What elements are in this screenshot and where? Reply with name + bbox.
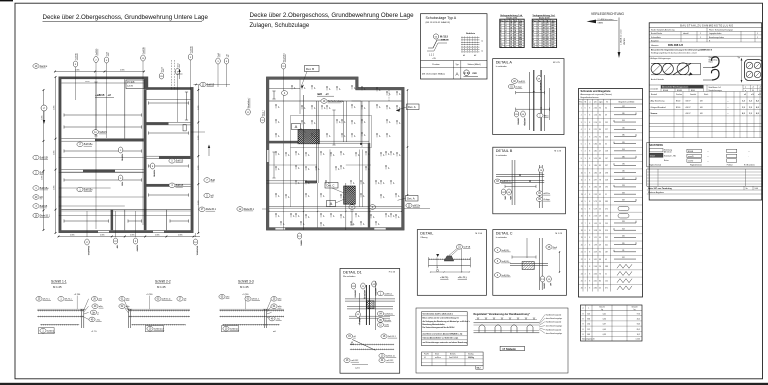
svg-text:o8: o8 (388, 93, 390, 95)
svg-text:Bemerk.: Bemerk. (450, 354, 456, 356)
svg-text:67: 67 (514, 46, 516, 48)
svg-text:4ø8: 4ø8 (317, 92, 322, 96)
svg-text:o8: o8 (387, 153, 389, 155)
svg-text:6: 6 (505, 46, 506, 48)
left plan interior wall vertical bottom-left (111, 210, 114, 230)
left plan interior bubbles (92, 130, 107, 135)
svg-text:o8: o8 (338, 121, 340, 123)
svg-text:5o8/15e: 5o8/15e (84, 188, 93, 191)
svg-text:1.56: 1.56 (594, 115, 597, 117)
svg-text:10: 10 (581, 172, 583, 174)
svg-text:2.885: 2.885 (42, 176, 44, 181)
svg-text:8: 8 (589, 230, 590, 232)
svg-text:1.81: 1.81 (594, 151, 597, 153)
svg-text:Lageplan-Index: Lageplan-Index (709, 33, 721, 35)
svg-text:2: 2 (585, 136, 586, 138)
svg-text:2.885: 2.885 (198, 166, 200, 171)
section Schnitt 3-3 right bubbles (271, 297, 282, 302)
svg-text:167: 167 (605, 158, 608, 160)
svg-text:Öffnung: Öffnung (420, 236, 427, 239)
svg-text:o8: o8 (277, 195, 279, 197)
svg-text:ø8: ø8 (744, 94, 746, 96)
svg-text:0,39: 0,39 (603, 334, 606, 336)
left plan top dimension line (55, 71, 144, 73)
detail C horizontal bars (510, 263, 548, 265)
svg-text:371: 371 (605, 288, 608, 290)
svg-text:o8: o8 (382, 154, 384, 156)
svg-text:227: 227 (605, 129, 608, 131)
svg-text:80: 80 (599, 280, 601, 282)
svg-text:9: 9 (585, 122, 586, 124)
left plan interior wall h5 right (147, 183, 191, 185)
svg-text:5o8/15: 5o8/15 (96, 48, 98, 55)
svg-text:5ø8(15.): 5ø8(15.) (501, 250, 509, 252)
svg-text:Dwfe15.1: Dwfe15.1 (195, 246, 197, 256)
detail D1 left rotated bubble (356, 311, 361, 326)
svg-text:o8: o8 (352, 182, 354, 184)
svg-text:2.90: 2.90 (594, 136, 597, 138)
svg-text:o8: o8 (357, 154, 359, 156)
svg-text:5ø8(15)e: 5ø8(15)e (501, 275, 510, 277)
left plan left margin leader lines (59, 157, 144, 159)
detail B bubbles (494, 179, 511, 184)
svg-text:o8: o8 (307, 154, 309, 156)
title block Baustoffe row 2 (650, 153, 664, 157)
svg-text:+ø8/15: +ø8/15 (95, 93, 105, 97)
left plan outer wall right (191, 87, 194, 233)
middle plan outer outline (267, 77, 405, 230)
svg-text:5.19: 5.19 (594, 208, 597, 210)
svg-text:8: 8 (589, 208, 590, 210)
svg-text:1.80: 1.80 (594, 172, 597, 174)
svg-text:152: 152 (605, 280, 608, 282)
svg-text:497: 497 (622, 178, 625, 180)
svg-text:Schneide und Biegeliste: Schneide und Biegeliste (581, 89, 612, 93)
svg-text:8: 8 (589, 136, 590, 138)
svg-text:o8: o8 (342, 216, 344, 218)
svg-text:3: 3 (585, 158, 586, 160)
left plan top annotation bubbles (73, 52, 78, 67)
svg-text:ø8-72.): ø8-72.) (43, 299, 50, 301)
section Schnitt 2-2 leader fan (124, 299, 129, 310)
left plan window mark (183, 125, 186, 131)
note box mini table (422, 352, 484, 366)
svg-text:Dwte15.1: Dwte15.1 (244, 208, 255, 211)
svg-text:7: 7 (585, 223, 586, 225)
left plan right dimension line (197, 85, 199, 233)
svg-text:21: 21 (599, 122, 601, 124)
svg-text:25: 25 (599, 208, 601, 210)
svg-text:—: — (707, 156, 709, 158)
svg-text:5: 5 (585, 208, 586, 210)
svg-text:395: 395 (622, 243, 625, 245)
svg-text:8: 8 (589, 187, 590, 189)
svg-text:ø8/15.1: ø8/15.1 (353, 290, 355, 298)
svg-text:Schubzulage: Schubzulage (328, 99, 344, 103)
svg-text:Schneidliste: Schneidliste (651, 36, 661, 39)
svg-text:3ø=07-03-01: 3ø=07-03-01 (449, 357, 458, 359)
svg-text:667: 667 (519, 46, 522, 48)
svg-text:o8: o8 (323, 107, 325, 109)
svg-text:Schnitt 3-3: Schnitt 3-3 (238, 280, 254, 284)
svg-text:o8: o8 (342, 167, 344, 169)
svg-text:130: 130 (622, 127, 625, 129)
svg-text:o8: o8 (322, 224, 324, 226)
svg-text:o8: o8 (398, 154, 400, 156)
svg-text:o8: o8 (362, 195, 364, 197)
left plan right margin bubbles (204, 178, 216, 183)
svg-text:Allg. Bewehrung: Allg. Bewehrung (651, 100, 665, 103)
svg-text:ø=20cm: ø=20cm (435, 357, 441, 359)
svg-text:4: 4 (585, 273, 586, 275)
left plan wall step (144, 77, 148, 90)
svg-text:o8: o8 (367, 168, 369, 170)
svg-text:ø8/15e: ø8/15e (543, 193, 550, 195)
svg-text:6: 6 (585, 107, 586, 109)
svg-text:Dwte15.1: Dwte15.1 (87, 246, 90, 256)
svg-text:01: 01 (424, 357, 426, 359)
svg-text:o8: o8 (292, 215, 294, 217)
svg-text:2.885: 2.885 (198, 201, 200, 206)
middle plan Det. A label right lower (406, 196, 419, 202)
svg-text:80: 80 (599, 129, 601, 131)
svg-text:5ø8(15.): 5ø8(15.) (501, 261, 509, 263)
svg-text:o8: o8 (293, 87, 295, 89)
Schubzulage bent bar sketch (428, 40, 445, 48)
svg-text:UNTEN: UNTEN (624, 38, 626, 45)
svg-text:o8: o8 (322, 195, 324, 197)
svg-text:18: 18 (581, 230, 583, 232)
svg-text:(BK 13x25x12)(25 StBA(-1): (BK 13x25x12)(25 StBA(-1) (422, 73, 445, 76)
left plan bottom leader lines (86, 211, 88, 237)
middle plan interior wall v mid (316, 101, 318, 183)
svg-text:Bauhöhe f: Bauhöhe f (248, 97, 250, 107)
svg-text:4.61: 4.61 (594, 280, 597, 282)
svg-text:0,37: 0,37 (603, 324, 606, 326)
middle plan left margin bubble (237, 207, 255, 212)
middle plan interior v line left-center (299, 80, 301, 115)
svg-text:272: 272 (605, 208, 608, 210)
svg-text:BAUSTOFFE: BAUSTOFFE (649, 144, 663, 147)
svg-text:383: 383 (605, 201, 608, 203)
svg-text:1: 1 (700, 37, 701, 39)
svg-text:Pläne: Schal-/bewehrungspl.: Pläne: Schal-/bewehrungspl. (709, 28, 734, 31)
svg-text:97,6: 97,6 (637, 313, 640, 315)
svg-text:Dwt: Dwt (176, 63, 179, 67)
detail Oeffnung dark knot (444, 256, 454, 261)
svg-text:B500B: B500B (677, 90, 682, 92)
svg-text:8: 8 (589, 280, 590, 282)
svg-text:3.31: 3.31 (594, 259, 597, 261)
detail Oeffnung leaders (449, 249, 457, 256)
detail D1 lower slab (350, 344, 394, 346)
svg-text:o8: o8 (328, 135, 330, 137)
left plan left dimension line outer (43, 90, 45, 230)
left plan outer wall bottom (59, 230, 194, 233)
svg-text:Beton: Beton (664, 159, 669, 162)
note box 17 Staebe label (500, 346, 524, 350)
svg-text:—: — (748, 151, 750, 153)
svg-text:+ø8.152: +ø8.152 (386, 360, 394, 362)
svg-text:5ø8(15.1): 5ø8(15.1) (501, 181, 510, 183)
left plan left margin bubbles (33, 64, 48, 69)
middle plan right dim line (407, 90, 409, 195)
svg-text:8: 8 (589, 201, 590, 203)
svg-text:Durchm.: Durchm. (676, 93, 683, 96)
svg-text:111: 111 (622, 250, 625, 252)
svg-text:5o8/15e: 5o8/15e (40, 187, 49, 190)
svg-text:4/8: 4/8 (700, 107, 703, 109)
svg-text:Sn Anlage angefertig v.Sn durc: Sn Anlage angefertig v.Sn durchaus allen… (651, 52, 697, 55)
svg-text:t 56.97: t 56.97 (685, 100, 691, 103)
svg-text:Det. C: Det. C (327, 184, 335, 188)
svg-text:o8: o8 (297, 167, 299, 169)
svg-text:Det. A: Det. A (407, 197, 415, 201)
svg-text:5: 5 (581, 136, 582, 138)
svg-text:5o8: 5o8 (211, 179, 216, 182)
svg-text:3.98: 3.98 (594, 230, 597, 232)
svg-text:+9.7%: +9.7% (91, 331, 97, 333)
left plan bottom wall door gaps (98, 230, 109, 232)
svg-text:5o8/15: 5o8/15 (143, 46, 145, 53)
title block Baustoffe row 3 (687, 159, 702, 162)
svg-text:8: 8 (589, 288, 590, 290)
svg-text:Seite 307 von Tanderlog: Seite 307 von Tanderlog (648, 187, 672, 190)
svg-text:l=4.85: l=4.85 (127, 86, 134, 88)
middle plan vertical pair lower mid (359, 150, 361, 208)
svg-text:o8: o8 (277, 153, 279, 155)
svg-text:Det. B: Det. B (306, 67, 314, 71)
svg-text:195: 195 (605, 187, 608, 189)
svg-text:2.885: 2.885 (198, 136, 200, 141)
svg-text:298: 298 (605, 172, 608, 174)
svg-text:6: 6 (585, 172, 586, 174)
svg-text:15: 15 (581, 208, 583, 210)
svg-text:5o8/15: 5o8/15 (176, 184, 184, 187)
svg-text:5.25: 5.25 (594, 158, 597, 160)
svg-text:Biegeform und Maße: Biegeform und Maße (619, 101, 635, 104)
svg-text:STRAB: STRAB (441, 39, 449, 42)
svg-text:1: 1 (757, 37, 758, 39)
svg-text:308: 308 (605, 136, 608, 138)
middle plan Schubzulage label (321, 99, 344, 104)
svg-text:6: 6 (581, 143, 582, 145)
svg-text:22: 22 (581, 259, 583, 261)
svg-text:254: 254 (587, 324, 590, 326)
svg-text:1: 1 (581, 107, 582, 109)
svg-text:158: 158 (605, 151, 608, 153)
middle plan left wall gap (267, 150, 269, 162)
svg-text:5: 5 (585, 201, 586, 203)
svg-text:18: 18 (599, 172, 601, 174)
DETAIL A box frame (493, 59, 564, 135)
section Schnitt 2-2 right bubbles (155, 297, 172, 302)
title block uebersicht band (649, 84, 762, 86)
svg-text:2.99: 2.99 (594, 194, 597, 196)
svg-text:5o8/15e: 5o8/15e (84, 143, 93, 146)
svg-text:Haken: Haken (709, 62, 714, 64)
left plan annotation 13 right of top wall (194, 84, 231, 86)
svg-text:DETAIL B: DETAIL B (496, 149, 513, 153)
left plan interior line h6 full (61, 209, 190, 211)
svg-text:Gesamtgewicht: Gesamtgewicht (582, 337, 595, 340)
svg-text:4.885: 4.885 (120, 70, 125, 72)
middle plan Det. C label (325, 183, 338, 189)
svg-text:4: 4 (585, 180, 586, 182)
svg-text:51: 51 (605, 194, 607, 196)
svg-text:Bewehrungs-Index: Bewehrungs-Index (709, 37, 724, 39)
svg-text:o8: o8 (398, 93, 400, 95)
svg-text:ø8(15)e: ø8(15)e (523, 118, 525, 126)
detail B vertical bars (511, 160, 513, 205)
svg-text:o8: o8 (377, 223, 379, 225)
svg-text:94,3: 94,3 (637, 324, 640, 326)
svg-text:M 1:25: M 1:25 (157, 285, 166, 289)
svg-text:Germu: Germu (40, 65, 48, 68)
svg-text:Gewicht: Gewicht (631, 306, 638, 309)
svg-text:Decke über 2.Obergeschoss, Gru: Decke über 2.Obergeschoss, Grundbewehrun… (43, 14, 209, 21)
svg-text:5ø8.15.1: 5ø8.15.1 (388, 336, 397, 338)
left plan outer wall top-left (59, 77, 149, 80)
svg-text:26: 26 (599, 266, 601, 268)
svg-text:3: 3 (581, 122, 582, 124)
svg-text:26: 26 (581, 288, 583, 290)
svg-text:o8: o8 (277, 215, 279, 217)
svg-text:1.99: 1.99 (594, 244, 597, 246)
svg-text:Bü,ø8e: Bü,ø8e (384, 320, 391, 322)
svg-text:(ø8/15.1): (ø8/15.1) (162, 299, 171, 301)
svg-text:Stützw.(Mittel): Stützw.(Mittel) (467, 63, 480, 66)
svg-text:+ø8.152: +ø8.152 (351, 360, 359, 362)
svg-text:cnom25: cnom25 (688, 156, 694, 158)
svg-text:In verbinden: In verbinden (496, 155, 507, 157)
svg-text:73: 73 (599, 273, 601, 275)
svg-text:90: 90 (599, 136, 601, 138)
detail D1 bottom bubbles (344, 358, 359, 363)
svg-text:B500B: B500B (688, 151, 694, 153)
section Schnitt 2-2 end element (128, 309, 130, 328)
svg-text:o8: o8 (372, 216, 374, 218)
left plan interior wall h4 right (147, 155, 191, 157)
svg-text:2.885: 2.885 (42, 116, 44, 121)
svg-text:-72.): -72.) (96, 319, 101, 321)
svg-text:o8: o8 (363, 121, 365, 123)
svg-text:196: 196 (622, 163, 625, 165)
middle plan rebar scatter marks (301, 85, 305, 89)
svg-text:Hinweis:: Hinweis: (651, 45, 659, 47)
svg-text:83: 83 (599, 165, 601, 167)
left plan top leader lines (75, 66, 77, 100)
svg-text:Hegde(Gestrat): Hegde(Gestrat) (690, 164, 702, 167)
svg-text:o8: o8 (392, 215, 394, 217)
svg-text:o8: o8 (307, 168, 309, 170)
svg-text:Zulage: Zulage (515, 86, 522, 88)
svg-text:o8: o8 (388, 107, 390, 109)
svg-text:o8f: o8f (115, 245, 117, 248)
left plan inner face line right-top (146, 99, 191, 101)
svg-text:27: 27 (599, 151, 601, 153)
svg-text:4.80: 4.80 (594, 288, 597, 290)
svg-text:o8: o8 (343, 135, 345, 137)
svg-text:ø8/15.1: ø8/15.1 (539, 83, 541, 91)
middle plan inner dim line lower (269, 210, 402, 212)
svg-text:8: 8 (589, 216, 590, 218)
svg-text:45: 45 (599, 288, 601, 290)
svg-text:2.60: 2.60 (594, 107, 597, 109)
svg-text:o8: o8 (307, 216, 309, 218)
svg-text:7: 7 (581, 151, 582, 153)
svg-text:8: 8 (589, 115, 590, 117)
svg-text:In verbinden: In verbinden (496, 237, 507, 239)
left plan inner face line top (61, 82, 143, 84)
svg-text:393: 393 (622, 221, 625, 223)
svg-text:2.885: 2.885 (54, 186, 56, 191)
svg-text:Hegde (Gestrat): Hegde (Gestrat) (649, 164, 662, 167)
middle plan interior leader lines (361, 101, 363, 147)
middle plan A label 2 (327, 201, 336, 207)
left plan outer wall left (59, 77, 62, 234)
svg-text:DETAIL A: DETAIL A (496, 61, 513, 65)
svg-text:2.14: 2.14 (594, 122, 597, 124)
svg-text:2: 2 (585, 244, 586, 246)
svg-text:o8: o8 (332, 215, 334, 217)
svg-text:o8: o8 (378, 89, 380, 91)
svg-text:4.885: 4.885 (70, 235, 75, 237)
svg-text:4.885: 4.885 (100, 235, 105, 237)
svg-text:Dw4: Dw4 (161, 67, 163, 72)
svg-text:Schnitt 1-1: Schnitt 1-1 (51, 280, 67, 284)
svg-text:o8: o8 (332, 154, 334, 156)
svg-text:Weitere Angaben: Weitere Angaben (648, 191, 665, 194)
svg-text:Decke über 2.Obergeschoss, Gru: Decke über 2.Obergeschoss, Grundbewehrun… (250, 12, 415, 19)
svg-text:2.885: 2.885 (54, 106, 56, 111)
svg-text:M /13.5: M /13.5 (440, 36, 449, 39)
detail D1 vertical bars (365, 285, 367, 325)
svg-text:337: 337 (605, 165, 608, 167)
svg-text:ø8/15e: ø8/15e (516, 118, 518, 126)
left plan interior wall vertical main (144, 90, 147, 230)
svg-text:Stabstang: Stabstang (664, 148, 672, 151)
svg-text:5o8/15: 5o8/15 (190, 45, 192, 52)
svg-text:11: 11 (581, 180, 583, 182)
svg-text:Stabstahl - NN: Stabstahl - NN (664, 154, 676, 157)
title block data table (649, 102, 762, 104)
svg-text:o8: o8 (353, 106, 355, 108)
svg-text:Pos: Pos (579, 102, 582, 104)
svg-text:o8: o8 (387, 167, 389, 169)
middle plan top bubble (281, 52, 286, 69)
svg-text:456: 456 (622, 236, 625, 238)
svg-text:t 56.97: t 56.97 (685, 112, 691, 115)
svg-text:8: 8 (589, 151, 590, 153)
detail D1 hatch block (367, 301, 374, 309)
svg-text:überall: überall (683, 33, 689, 35)
svg-text:Gew./m: Gew./m (599, 307, 605, 309)
svg-text:o8: o8 (388, 135, 390, 137)
svg-text:o8: o8 (297, 215, 299, 217)
svg-text:(BK 13.5/25-32 StBA-VF): (BK 13.5/25-32 StBA-VF) (426, 21, 451, 24)
svg-text:DETAIL: DETAIL (420, 232, 433, 236)
svg-text:o8: o8 (397, 216, 399, 218)
top-left scan edge mark (0, 0, 13, 1)
svg-text:M 1:50: M 1:50 (475, 233, 482, 235)
detail C right bubbles (546, 245, 558, 250)
section Schnitt 3-3 left bubbles (219, 294, 230, 299)
svg-text:20,2: 20,2 (637, 319, 640, 321)
svg-text:o8: o8 (277, 168, 279, 170)
svg-text:11: 11 (500, 46, 502, 48)
svg-text:o8: o8 (277, 106, 279, 108)
